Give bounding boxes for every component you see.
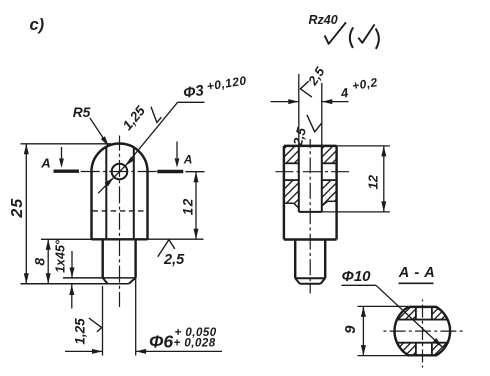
wire hole edge right A-A bbox=[431, 307, 433, 320]
wire 8 dim line bbox=[47, 239, 49, 283]
node roughness mark d3 leader bbox=[151, 107, 161, 123]
wire side body top bbox=[284, 145, 337, 147]
node hole circle (d3) bbox=[112, 164, 128, 180]
wire d3 leader bbox=[125, 102, 177, 166]
wire stem bottom line + extension bbox=[21, 283, 129, 285]
wire 1x45 lower arrow line bbox=[71, 284, 73, 309]
wire hole line right bottom bbox=[322, 179, 337, 181]
wire d10 shelf bbox=[342, 284, 377, 286]
wire head top extension line (25 dim) bbox=[21, 143, 112, 145]
node head outline front view bbox=[92, 144, 148, 172]
svg-text:Φ6: Φ6 bbox=[149, 332, 173, 352]
node 1x45 upper arrowhead bbox=[70, 267, 75, 278]
wire d3 shelf bbox=[178, 101, 205, 103]
wire A-A underline bbox=[399, 282, 434, 284]
wire slot left edge + ext bbox=[298, 74, 300, 212]
wire chamfer top line + extension bbox=[63, 277, 136, 279]
wire slot bottom + 12 ext bbox=[299, 211, 322, 213]
wire hole line left bottom bbox=[284, 179, 299, 181]
wire stem right edge bbox=[134, 239, 136, 278]
wire d10 leader bbox=[376, 285, 442, 347]
wire hole line left top bbox=[284, 162, 299, 164]
svg-text:Φ10: Φ10 bbox=[342, 268, 372, 285]
node roughness mark slot left bbox=[300, 81, 312, 97]
node paren left bbox=[350, 27, 353, 48]
wire d6 dim line right bbox=[136, 350, 222, 352]
svg-text:8: 8 bbox=[32, 258, 48, 266]
wire flat edge right bbox=[133, 148, 135, 240]
wire side stem right bbox=[324, 240, 326, 279]
svg-text:R5: R5 bbox=[73, 105, 91, 120]
svg-text:12: 12 bbox=[366, 174, 381, 189]
svg-text:+ 0,028: + 0,028 bbox=[174, 337, 216, 349]
wire side chamfer diag left bbox=[295, 278, 300, 284]
wire vertical centerline front bbox=[119, 136, 121, 151]
node 8 arrows bbox=[46, 239, 51, 250]
wire A-A horizontal centerline bbox=[383, 330, 386, 332]
hatch left wall top bbox=[270, 146, 320, 163]
wire 9 top ext bbox=[358, 305, 409, 307]
svg-text:12: 12 bbox=[180, 197, 195, 215]
svg-text:1,25: 1,25 bbox=[73, 318, 88, 345]
wire side vertical centerline bbox=[309, 139, 311, 148]
wire side stem left bbox=[294, 240, 296, 279]
wire side chamfer top bbox=[295, 277, 325, 279]
wire hatch boundary right bbox=[328, 200, 337, 202]
node 12 arrows front bbox=[194, 172, 199, 183]
wire 12 right ext bbox=[148, 238, 204, 240]
wire flat edge left bbox=[105, 147, 107, 239]
wire 9 dim line bbox=[362, 306, 364, 355]
node d3 upper arrowhead bbox=[125, 157, 134, 166]
svg-text:A: A bbox=[40, 156, 50, 171]
wire horizontal centerline front bbox=[81, 171, 100, 173]
wire slot band bottom bbox=[397, 342, 448, 344]
svg-text:c): c) bbox=[30, 16, 45, 34]
node 9 arrows bbox=[361, 306, 366, 317]
node d6 arrows bbox=[92, 349, 103, 354]
svg-text:2,5: 2,5 bbox=[163, 252, 185, 268]
svg-text:A - A: A - A bbox=[398, 265, 436, 281]
svg-text:A: A bbox=[183, 152, 193, 166]
svg-text:1x45°: 1x45° bbox=[53, 239, 67, 273]
wire hole edge left A-A bbox=[415, 307, 417, 320]
node section arrowhead right bbox=[175, 158, 180, 168]
node roughness mark slot right bbox=[307, 115, 322, 132]
wire hole line right top bbox=[322, 162, 337, 164]
wire slot band top bbox=[397, 319, 448, 321]
wire chamfer diag right bbox=[129, 278, 136, 284]
wire d3 dim lower segment bbox=[98, 166, 125, 193]
wire head right edge bbox=[146, 172, 148, 240]
wire 12 side dim line bbox=[383, 146, 385, 212]
wire slot bottom hidden line bbox=[93, 210, 148, 212]
wire side shoulder bbox=[284, 238, 337, 240]
node 12 side arrows bbox=[381, 146, 386, 157]
node roughness symbol in parens bbox=[358, 24, 374, 42]
wire 12 side top ext bbox=[337, 145, 390, 147]
wire 4 dim line left bbox=[271, 101, 299, 103]
wire 25 dim line bbox=[25, 144, 27, 284]
wire section arrow right bbox=[176, 142, 178, 159]
node R5 arrowhead bbox=[101, 136, 109, 146]
wire head left edge bbox=[90, 172, 92, 240]
node paren right bbox=[376, 29, 379, 49]
hatch left wall bottom bbox=[257, 180, 334, 208]
wire side stem bottom bbox=[300, 283, 321, 285]
wire 8 top ext bbox=[41, 238, 92, 240]
wire 1x45 upper arrow line bbox=[71, 251, 73, 278]
svg-text:Φ3: Φ3 bbox=[182, 82, 206, 102]
wire shoulder line bbox=[92, 238, 148, 240]
svg-text:Rz40: Rz40 bbox=[309, 13, 338, 27]
node 1x45 lower arrowhead bbox=[69, 285, 74, 296]
wire stem left edge bbox=[101, 239, 103, 278]
hatch right wall top bbox=[307, 146, 357, 163]
node roughness mark stem bbox=[89, 318, 102, 332]
node section outline A-A bbox=[394, 307, 450, 355]
wire slot right edge + ext bbox=[321, 83, 323, 212]
svg-text:25: 25 bbox=[9, 198, 26, 219]
wire R5 leader bbox=[90, 118, 109, 147]
hatch right wall bottom bbox=[297, 180, 364, 206]
node d3 lower arrowhead bbox=[105, 177, 114, 186]
wire 12 top ext bbox=[185, 171, 204, 173]
node 25 arrows bbox=[24, 144, 29, 155]
node 4 arrows bbox=[288, 99, 299, 104]
wire chamfer diag left bbox=[103, 278, 108, 284]
node d10 arrowhead bbox=[433, 338, 442, 347]
wire 12 dim line front bbox=[195, 172, 197, 240]
wire 4 dim line right bbox=[322, 101, 349, 103]
wire 9 bottom ext bbox=[358, 355, 410, 357]
wire hatch boundary left bbox=[284, 202, 294, 204]
node roughness mark shoulder bbox=[158, 240, 175, 257]
wire side chamfer diag right bbox=[321, 278, 326, 284]
node roughness symbol main bbox=[325, 22, 346, 44]
wire section arrow left bbox=[61, 147, 63, 159]
wire d6 ext right bbox=[135, 278, 137, 356]
hatch section A-A bbox=[334, 300, 490, 362]
wire side body left edge bbox=[283, 146, 285, 240]
wire d6 ext left bbox=[102, 286, 104, 356]
wire A-A vertical centerline bbox=[422, 300, 424, 302]
wire d6 dim line left bbox=[65, 350, 103, 352]
node section stroke right bbox=[157, 170, 183, 173]
wire side horizontal centerline bbox=[276, 171, 294, 173]
wire side body right edge bbox=[335, 146, 337, 240]
node section stroke left bbox=[54, 169, 80, 172]
svg-text:9: 9 bbox=[343, 326, 359, 334]
node section arrowhead left bbox=[59, 159, 64, 169]
